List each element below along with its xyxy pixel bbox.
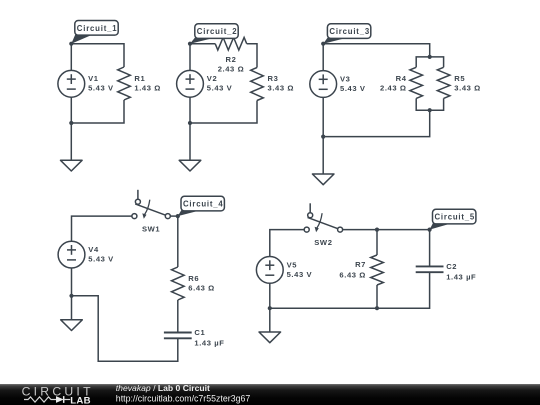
node flag Circuit_5 callout xyxy=(428,209,476,231)
resistor R2 xyxy=(215,37,247,73)
svg-text:Circuit_4: Circuit_4 xyxy=(183,200,224,209)
svg-text:V5: V5 xyxy=(287,260,298,269)
svg-text:1.43 µF: 1.43 µF xyxy=(194,338,224,347)
wire R6 to C1 xyxy=(177,300,179,333)
switch SW2 xyxy=(304,203,342,247)
svg-text:6.43 Ω: 6.43 Ω xyxy=(339,270,366,279)
node junction dot parallel bottom xyxy=(428,108,432,112)
node junction dot circuit 2 bottom xyxy=(188,121,192,125)
wire circuit 3 top rail xyxy=(323,44,430,57)
footer bar xyxy=(0,384,540,405)
wire circuit 1 bottom rail xyxy=(71,100,124,123)
wire circuit 3 bottom rail xyxy=(323,110,430,136)
svg-text:thevakap / Lab 0 Circuit: thevakap / Lab 0 Circuit xyxy=(116,383,210,393)
svg-text:V1: V1 xyxy=(88,74,99,83)
node flag Circuit_1 callout xyxy=(69,21,118,46)
svg-text:5.43 V: 5.43 V xyxy=(88,84,114,93)
wire circuit 1 top rail xyxy=(71,44,124,67)
switch SW1 xyxy=(132,190,170,234)
node junction dot R7 bottom xyxy=(375,306,379,310)
wire V5 top lead to switch xyxy=(270,230,304,270)
voltage source V2 xyxy=(177,70,233,97)
svg-text:2.43 Ω: 2.43 Ω xyxy=(380,84,407,93)
wire parallel block bottom bar xyxy=(416,98,443,110)
wire switch to R7 node to C2 node xyxy=(343,229,430,231)
voltage source V1 xyxy=(58,70,114,97)
svg-text:LAB: LAB xyxy=(70,395,91,405)
wire V4 bottom lead xyxy=(71,255,73,296)
node flag Circuit_2 callout xyxy=(188,24,238,46)
CircuitLab logo xyxy=(22,385,94,405)
node junction dot circuit 3 bottom xyxy=(321,135,325,139)
wire V2 branch xyxy=(189,44,191,123)
svg-text:Circuit_3: Circuit_3 xyxy=(329,27,370,36)
wire V3 branch xyxy=(322,44,324,137)
svg-text:R2: R2 xyxy=(226,55,237,64)
svg-text:R7: R7 xyxy=(355,260,366,269)
svg-text:V4: V4 xyxy=(88,245,99,254)
wire circuit 2 top rail left xyxy=(190,43,215,45)
ground xyxy=(312,137,334,185)
ground xyxy=(259,308,281,343)
wire C2 branch xyxy=(429,230,431,267)
resistor R7 xyxy=(339,255,383,285)
ground xyxy=(61,123,83,171)
node junction dot R7 top xyxy=(375,228,379,232)
capacitor C1 xyxy=(164,328,225,347)
node junction dot parallel top xyxy=(428,55,432,59)
capacitor C2 xyxy=(416,262,477,281)
svg-text:R6: R6 xyxy=(188,274,199,283)
svg-text:Circuit_2: Circuit_2 xyxy=(197,27,238,36)
svg-text:http://circuitlab.com/c7r55zte: http://circuitlab.com/c7r55zter3g67 xyxy=(116,393,251,403)
resistor R6 xyxy=(172,267,215,300)
voltage source V3 xyxy=(310,71,366,98)
svg-text:SW2: SW2 xyxy=(314,238,332,247)
svg-text:5.43 V: 5.43 V xyxy=(88,255,114,264)
svg-text:SW1: SW1 xyxy=(142,225,160,234)
resistor R5 xyxy=(437,67,481,98)
svg-text:1.43 µF: 1.43 µF xyxy=(446,272,476,281)
wire C2 bottom + bottom rail xyxy=(270,272,430,308)
svg-text:Circuit_1: Circuit_1 xyxy=(77,24,118,33)
svg-text:C1: C1 xyxy=(194,328,205,337)
resistor R1 xyxy=(118,67,161,100)
svg-text:C2: C2 xyxy=(446,262,457,271)
svg-text:R5: R5 xyxy=(454,74,465,83)
wire switch to node xyxy=(170,215,178,217)
wire circuit 2 top rail right xyxy=(247,44,257,68)
resistor R3 xyxy=(251,68,294,101)
wire circuit 2 bottom rail xyxy=(190,101,257,124)
svg-text:5.43 V: 5.43 V xyxy=(340,84,366,93)
svg-text:Circuit_5: Circuit_5 xyxy=(435,213,476,222)
ground xyxy=(61,296,83,331)
svg-text:V3: V3 xyxy=(340,74,351,83)
svg-text:R1: R1 xyxy=(134,74,145,83)
wire node down to R6 xyxy=(177,216,179,267)
node junction dot circuit 1 bottom xyxy=(69,121,73,125)
svg-text:R4: R4 xyxy=(396,74,407,83)
wire C1 bottom to left loop xyxy=(72,296,178,362)
svg-text:2.43 Ω: 2.43 Ω xyxy=(218,65,245,74)
wire R7 branch xyxy=(376,230,378,255)
wire V4 top lead to switch xyxy=(72,216,132,255)
svg-text:V2: V2 xyxy=(207,74,218,83)
ground xyxy=(179,123,201,171)
voltage source V5 xyxy=(256,257,312,284)
wire parallel block top bar xyxy=(416,57,443,67)
svg-text:6.43 Ω: 6.43 Ω xyxy=(188,284,215,293)
wire V5 bottom lead xyxy=(269,270,271,308)
wire V1 branch xyxy=(70,44,72,123)
node junction dot V5 bottom xyxy=(268,306,272,310)
footer text xyxy=(116,383,251,404)
svg-text:1.43 Ω: 1.43 Ω xyxy=(134,84,161,93)
svg-text:3.43 Ω: 3.43 Ω xyxy=(454,84,481,93)
voltage source V4 xyxy=(58,241,114,268)
node junction dot circuit 4 left xyxy=(69,294,73,298)
svg-text:5.43 V: 5.43 V xyxy=(287,270,313,279)
svg-text:R3: R3 xyxy=(268,74,279,83)
svg-text:5.43 V: 5.43 V xyxy=(207,84,233,93)
node flag Circuit_3 callout xyxy=(321,24,371,46)
node flag Circuit_4 callout xyxy=(176,196,225,218)
resistor R4 xyxy=(380,67,422,98)
svg-text:3.43 Ω: 3.43 Ω xyxy=(268,84,295,93)
